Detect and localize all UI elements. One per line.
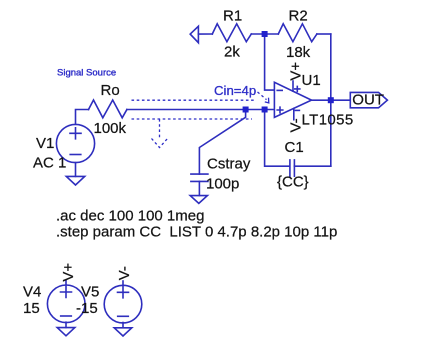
capacitor Cstray plates	[191, 174, 208, 181]
wire C1 right to feedback vertical	[294, 165, 330, 167]
V5 top stub to V- flag	[122, 281, 124, 285]
svg-text:OUT: OUT	[352, 92, 384, 109]
dashed arrow Cin=4p head	[265, 98, 269, 103]
V5 wire to ground	[122, 323, 124, 328]
svg-text:R2: R2	[289, 7, 308, 24]
junction node signal/C1	[262, 107, 268, 113]
V5 minus marker	[118, 315, 129, 317]
op-amp V- pin minus marker	[295, 109, 299, 111]
svg-text:Cstray: Cstray	[207, 156, 251, 173]
svg-text:-15: -15	[76, 300, 98, 317]
dashed arrow Cin=4p diagonal	[258, 92, 267, 100]
op-amp V+ pin plus marker	[295, 86, 300, 91]
svg-text:V5: V5	[81, 284, 99, 301]
svg-text:V-: V-	[116, 266, 133, 280]
V4 plus marker	[61, 287, 72, 298]
svg-text:15: 15	[23, 300, 40, 317]
dashed annotation group	[132, 92, 269, 148]
wire R2 to top-right corner	[317, 33, 331, 35]
svg-text:V+: V+	[288, 62, 305, 81]
V1 wire to ground	[75, 163, 77, 177]
V1 minus marker	[70, 154, 81, 156]
wire junction1 stub to Cstray diagonal	[199, 110, 245, 175]
svg-text:.step param CC LIST 0 4.7p 8.: .step param CC LIST 0 4.7p 8.2p 10p 11p	[56, 224, 337, 241]
op-amp V+ power pin stub	[292, 81, 294, 91]
op-amp non-inverting input marker	[277, 107, 283, 113]
dashed line Cin bottom	[132, 118, 253, 120]
ground below V4	[57, 328, 75, 336]
svg-text:AC 1: AC 1	[33, 155, 66, 172]
dashed line Cin top	[132, 99, 257, 101]
wire node N1 down to inverting input	[265, 34, 275, 90]
svg-text:C1: C1	[285, 139, 304, 156]
op-amp U1 triangle	[274, 82, 311, 117]
svg-text:100p: 100p	[206, 175, 239, 192]
svg-text:V1: V1	[36, 135, 54, 152]
junction node signal/Cstray	[243, 107, 249, 113]
capacitor C1 plates	[290, 160, 295, 176]
svg-text:V4: V4	[23, 284, 41, 301]
op-amp inverting input marker	[277, 89, 282, 91]
voltage source V5 circle	[104, 285, 142, 323]
wire output to junction	[312, 99, 331, 101]
svg-text:.ac dec 100 100 1meg: .ac dec 100 100 1meg	[56, 208, 204, 225]
svg-text:2k: 2k	[224, 44, 240, 61]
V1 plus marker	[70, 128, 81, 139]
svg-text:LT1055: LT1055	[302, 112, 354, 129]
voltage source V1 circle	[56, 124, 94, 162]
wire feedback vertical (R2 right / output / C1 right)	[330, 34, 332, 166]
wire junction to OUT flag	[331, 99, 350, 101]
svg-text:100k: 100k	[94, 120, 127, 137]
svg-text:V-: V-	[288, 118, 305, 132]
dashed arrow down head	[152, 139, 168, 148]
junction node R1/R2	[262, 31, 268, 37]
V5 plus marker	[118, 287, 129, 298]
ground below V5	[114, 328, 132, 336]
wire Cstray to ground	[198, 181, 200, 195]
svg-text:18k: 18k	[286, 44, 311, 61]
svg-text:{CC}: {CC}	[277, 174, 309, 191]
svg-text:Signal Source: Signal Source	[57, 67, 116, 78]
wire signal row Ro to op-amp plus input	[127, 109, 275, 111]
output flag OUT pentagon	[350, 92, 387, 107]
svg-text:R1: R1	[223, 8, 242, 25]
resistor R1	[212, 24, 251, 42]
wire R1 to node N1	[251, 33, 278, 35]
voltage source V4 circle	[47, 285, 85, 323]
V4 top stub to V+ flag	[65, 281, 67, 285]
svg-text:V+: V+	[60, 263, 77, 282]
dashed arrow down stem	[159, 119, 161, 139]
junction node output	[328, 97, 334, 103]
svg-text:Cin=4p: Cin=4p	[214, 83, 256, 98]
port flag (left arrow) on R1 left terminal	[190, 26, 198, 42]
V4 minus marker	[61, 315, 72, 317]
wire port to R1	[198, 33, 212, 35]
resistor R2	[278, 24, 317, 42]
op-amp V- power pin stub	[293, 109, 295, 120]
ground below Cstray	[190, 196, 207, 204]
resistor Ro	[89, 100, 127, 118]
wire junction2 down to C1 left	[265, 110, 289, 167]
ground below V1	[66, 176, 84, 185]
svg-text:Ro: Ro	[101, 82, 120, 99]
voltage source V1 wire to Ro	[76, 110, 89, 125]
V4 wire to ground	[65, 322, 67, 327]
